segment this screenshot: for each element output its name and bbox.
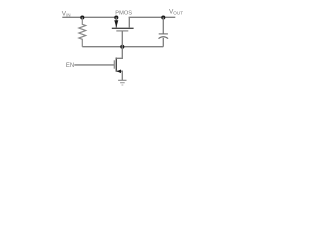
node EN label <box>66 63 74 69</box>
transistor Q1 PMOS channel bar <box>112 27 134 29</box>
node VIN label <box>62 10 71 17</box>
transistor Q2 NMOS gate bar <box>113 60 115 68</box>
transistor Q2 NMOS source lead <box>116 71 122 80</box>
wire EN to NMOS gate <box>74 64 114 66</box>
transistor Q2 NMOS source arrow <box>117 70 122 74</box>
transistor Q1 PMOS drain leg <box>128 17 130 28</box>
resistor R1 pull-up <box>79 17 86 46</box>
node VOUT label <box>169 8 183 15</box>
transistor Q1 PMOS source arrow <box>114 20 118 27</box>
capacitor C1 bottom plate curved <box>159 37 169 39</box>
svg-text:EN: EN <box>66 63 74 69</box>
transistor Q2 NMOS drain lead <box>116 47 122 59</box>
transistor Q1 PMOS gate lead <box>121 31 123 47</box>
transistor Q1 PMOS label <box>115 10 132 16</box>
node junction dot PMOS source <box>114 15 118 19</box>
capacitor C1 top lead <box>162 17 164 33</box>
capacitor C1 top plate <box>159 33 168 35</box>
wire gate node horizontal <box>82 46 163 48</box>
node junction dot resistor top <box>80 15 84 19</box>
transistor Q2 NMOS channel bar <box>115 58 117 72</box>
svg-text:PMOS: PMOS <box>115 10 132 16</box>
wire top rail PMOS drain to VOUT <box>129 16 176 18</box>
transistor Q1 PMOS source leg <box>115 17 117 28</box>
svg-text:OUT: OUT <box>173 11 183 16</box>
ground symbol <box>118 80 126 85</box>
wire top rail VIN to PMOS source <box>62 16 117 18</box>
transistor Q1 PMOS gate bar <box>116 30 128 32</box>
node junction dot gate <box>120 45 124 49</box>
node junction dot VOUT cap <box>161 15 165 19</box>
capacitor C1 bottom lead <box>162 38 164 47</box>
